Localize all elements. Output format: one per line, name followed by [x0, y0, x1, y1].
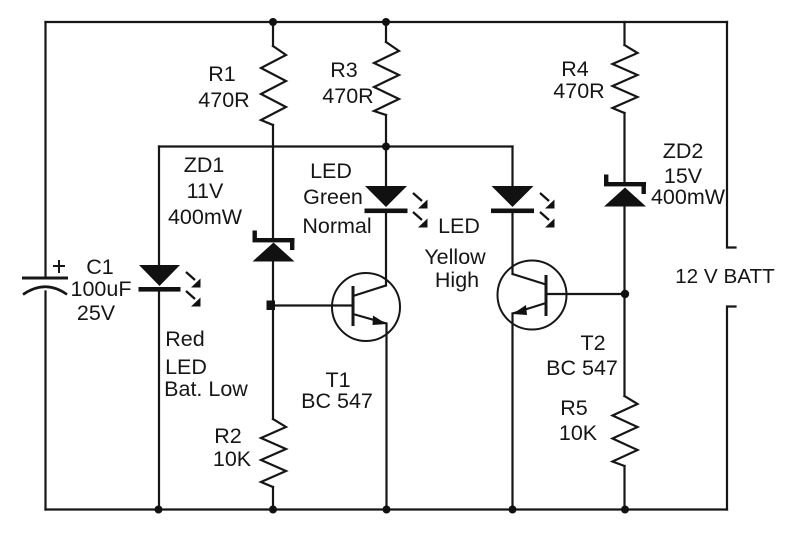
svg-text:R4: R4	[561, 57, 589, 81]
svg-text:100uF: 100uF	[71, 277, 132, 301]
svg-text:BC 547: BC 547	[546, 356, 618, 380]
wire yellow LED column upper	[511, 147, 513, 187]
T1 emitter arrow	[373, 316, 387, 326]
node bottom rail / T1 emitter	[383, 506, 391, 514]
node mid rail / R3	[382, 143, 390, 151]
node top rail / R1	[269, 18, 277, 26]
svg-text:25V: 25V	[77, 301, 116, 325]
node ZD1 column / T1 base (square)	[267, 301, 276, 311]
svg-text:Yellow: Yellow	[424, 245, 486, 269]
wire T2 base	[546, 293, 625, 295]
wire ZD2 to R5	[623, 206, 625, 396]
svg-text:10K: 10K	[213, 447, 252, 471]
svg-text:10K: 10K	[559, 421, 598, 445]
wire R1 top lead	[272, 22, 274, 46]
wire R5 bottom lead	[623, 466, 625, 510]
svg-text:400mW: 400mW	[651, 185, 726, 209]
svg-text:Green: Green	[303, 185, 363, 209]
svg-text:R3: R3	[330, 58, 358, 82]
node bottom rail / red LED	[155, 506, 163, 514]
wire R3 top lead	[385, 22, 387, 42]
wire ZD1 to R2	[272, 262, 274, 419]
svg-text:C1: C1	[86, 255, 113, 279]
svg-text:Normal: Normal	[302, 214, 371, 238]
svg-text:R5: R5	[560, 396, 588, 420]
svg-text:11V: 11V	[187, 179, 224, 203]
svg-text:High: High	[435, 268, 479, 292]
capacitor C1	[22, 260, 68, 295]
LED D1 red	[139, 265, 201, 307]
svg-text:Bat. Low: Bat. Low	[164, 377, 248, 401]
wire yellow LED to T2 collector	[511, 213, 513, 274]
svg-text:470R: 470R	[322, 84, 373, 108]
wire red LED column upper	[158, 147, 160, 266]
wire green LED to T1 collector	[385, 213, 387, 286]
svg-text:ZD2: ZD2	[663, 139, 704, 163]
svg-text:BC 547: BC 547	[301, 389, 373, 413]
svg-text:470R: 470R	[198, 88, 249, 112]
node bottom rail / T2 emitter	[509, 506, 517, 514]
node T2 base / ZD2 column	[621, 290, 629, 298]
svg-text:R2: R2	[214, 424, 241, 448]
svg-text:R1: R1	[208, 62, 235, 86]
resistor R5	[613, 396, 638, 466]
svg-text:ZD1: ZD1	[184, 153, 225, 177]
svg-text:470R: 470R	[553, 79, 604, 103]
wire right border lower (from battery - terminal)	[727, 307, 736, 510]
wire left border upper	[44, 22, 46, 277]
wire T1 emitter to bottom rail	[385, 324, 387, 510]
wire R4 to ZD2	[623, 113, 625, 182]
wire T1 base	[268, 304, 353, 306]
svg-text:LED: LED	[165, 355, 207, 379]
wire right border upper (to battery + terminal)	[727, 22, 736, 248]
svg-text:LED: LED	[310, 159, 352, 183]
wire R4 top lead	[623, 22, 625, 45]
transistor T2	[498, 261, 567, 330]
wire red LED column lower	[158, 291, 160, 510]
node bottom rail / R5	[621, 506, 629, 514]
wire T2 emitter to bottom rail	[511, 314, 513, 510]
wire left border lower	[44, 292, 46, 510]
wire bottom rail	[46, 508, 728, 510]
svg-text:LED: LED	[438, 214, 480, 238]
wire R1 to ZD1	[272, 125, 274, 238]
svg-text:Red: Red	[165, 327, 204, 351]
LED D3 yellow	[491, 186, 555, 228]
wire top rail	[46, 21, 728, 23]
resistor R3	[374, 42, 399, 115]
svg-text:T2: T2	[580, 331, 605, 355]
resistor R4	[613, 45, 638, 113]
zener diode ZD2	[604, 175, 646, 207]
svg-text:400mW: 400mW	[168, 205, 243, 229]
T2 emitter arrow	[513, 305, 528, 315]
LED D2 green	[365, 186, 428, 228]
wire R3 to green LED	[385, 115, 387, 186]
wire mid horizontal rail	[159, 145, 513, 147]
resistor R1	[261, 46, 286, 125]
wire R2 bottom lead	[272, 487, 274, 510]
node top rail / R3	[382, 18, 390, 26]
node bottom rail / R2	[269, 506, 277, 514]
zener diode ZD1	[253, 231, 295, 262]
transistor T1	[332, 273, 400, 341]
svg-text:12 V BATT: 12 V BATT	[675, 265, 775, 288]
resistor R2	[261, 419, 286, 487]
